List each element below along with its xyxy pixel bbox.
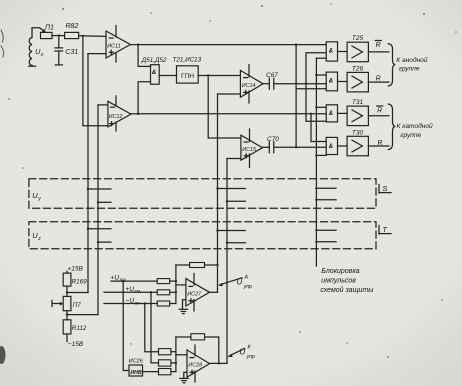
wire gate2 to T26 <box>338 81 348 83</box>
label IC28 <box>188 363 202 369</box>
node feedback-output <box>218 362 220 364</box>
label Uupr-K <box>240 345 256 360</box>
svg-text:ИНВ: ИНВ <box>130 370 141 376</box>
wire IC28 feedback left <box>176 336 191 338</box>
potentiometer wiper arrow <box>40 28 45 32</box>
svg-text:ИС26: ИС26 <box>129 359 144 365</box>
label +15V <box>68 265 84 272</box>
sync tick box1 on left vertical 98 <box>98 201 111 203</box>
potentiometer P7 <box>63 296 71 310</box>
svg-text:ИС15: ИС15 <box>242 147 257 153</box>
terminal T <box>379 226 391 235</box>
svg-text:&: & <box>329 111 333 117</box>
svg-text:C67: C67 <box>266 72 278 79</box>
node bus gate3 <box>315 106 317 108</box>
wire T31 output <box>368 115 389 117</box>
wire IC11 line tap down to C70 line <box>295 45 297 148</box>
label T21,IC13 <box>173 56 202 63</box>
wire inverter feed from +Upt <box>123 281 129 370</box>
label R169 <box>72 278 88 285</box>
svg-text:R82: R82 <box>66 23 79 30</box>
wire D51 gate to GPN <box>159 75 176 77</box>
wire T26 output <box>368 81 389 83</box>
svg-text:R112: R112 <box>72 325 87 332</box>
sync tick box2 on bus C <box>227 242 245 244</box>
wire IC28 plus to ground <box>184 372 187 378</box>
scan blob bottom left <box>0 346 6 364</box>
svg-text:ГПН: ГПН <box>181 73 194 80</box>
wire P1 to node <box>52 35 65 37</box>
label K anodnoy gruppe <box>396 56 428 73</box>
wire +Upt input <box>111 280 157 282</box>
wire gate4 to T30 <box>338 145 348 147</box>
sync tick box1 on bus C <box>227 200 245 202</box>
op-amp U IC27 <box>186 279 210 306</box>
sync tick box1 on bus B <box>218 188 246 190</box>
label R112 <box>72 325 87 332</box>
wire INV output to IC28 r3 <box>143 371 159 373</box>
IC11 plus sign <box>109 50 113 54</box>
svg-text:Т21,ИС13: Т21,ИС13 <box>173 56 202 63</box>
label IC11 <box>107 43 120 49</box>
inverter box INV <box>129 365 143 376</box>
label K katodnoy gruppe <box>397 122 434 139</box>
ground IC28 <box>180 378 188 382</box>
sync tick box2 upper on blocking bus <box>316 229 336 231</box>
node bus gate4 <box>315 154 317 156</box>
svg-text:Д51,Д52: Д51,Д52 <box>141 57 167 64</box>
svg-text:ИС12: ИС12 <box>109 114 123 120</box>
node on C67 line <box>305 83 307 85</box>
sync tick box1 lower on blocking bus <box>316 199 336 201</box>
label -15V <box>68 341 84 348</box>
svg-text:схемой защиты: схемой защиты <box>320 286 374 294</box>
wire r3 out <box>170 303 176 305</box>
arrow Uupr anode <box>219 278 242 286</box>
label IC27 <box>187 291 202 297</box>
capacitor C70 <box>269 142 274 153</box>
label Uy <box>32 191 41 202</box>
wire IC27 output to bus B <box>210 291 218 293</box>
brace cathode group <box>388 104 395 150</box>
IC15 minus sign <box>244 141 248 143</box>
wire IC27 summing node <box>175 265 177 304</box>
node Usm tap <box>150 291 152 293</box>
node IC12 output junction <box>137 113 139 115</box>
node bus gate2 <box>315 74 317 76</box>
sawtooth generator GPN (T21,IC13) <box>177 66 199 83</box>
wire IC14 plus input from feedback bus B <box>218 93 241 95</box>
wire IC14 output to C67 <box>263 83 269 85</box>
wire C67 to AND gate 2 <box>274 83 326 85</box>
resistor IC28 input 1 <box>159 349 171 355</box>
AND gate 1 <box>326 42 337 61</box>
IC28 minus sign <box>190 357 194 359</box>
amplifier T26 <box>347 72 368 92</box>
label C67 <box>266 72 278 79</box>
wire IC15 output to C70 <box>263 146 270 148</box>
label IC14 <box>242 83 256 89</box>
wire C67 line down to AND gate 3 lower input <box>306 84 326 122</box>
wire coil top to potentiometer <box>32 28 40 38</box>
wire -15V stub <box>66 334 68 342</box>
node r2 <box>175 291 177 293</box>
amplifier T31 <box>347 106 368 126</box>
svg-text:К анодной: К анодной <box>396 56 428 64</box>
svg-text:&: & <box>329 144 333 150</box>
terminal S <box>379 185 391 194</box>
IC14 minus sign <box>244 77 248 79</box>
node inverter tap <box>122 280 124 282</box>
wire AND gate 1 second input from C67 line <box>306 53 326 84</box>
svg-text:S: S <box>382 184 387 193</box>
node tick <box>216 187 218 189</box>
label Uz <box>32 231 41 242</box>
P7 wiper arrow <box>52 301 63 307</box>
resistor IC27 input 1 <box>157 279 170 284</box>
wire gate3 to T31 <box>338 112 348 114</box>
node tick <box>315 199 317 201</box>
svg-text:R: R <box>376 76 381 83</box>
label +Upt <box>110 274 126 282</box>
svg-text:упр: упр <box>246 354 255 360</box>
label P7 <box>73 302 82 309</box>
wire tap to AND gate 2 lower input <box>296 88 326 90</box>
svg-text:R169: R169 <box>72 278 88 285</box>
sync tick box1 on left vertical 88 <box>88 188 111 190</box>
wire bus to AND gate 2 <box>316 74 326 76</box>
svg-text:&: & <box>329 79 333 85</box>
op-amp U IC12 <box>108 101 131 127</box>
svg-text:x: x <box>40 52 44 58</box>
node tick <box>315 241 317 243</box>
svg-text:y: y <box>37 196 41 202</box>
node P7-R112 junction <box>66 313 68 315</box>
resistor IC28 input 3 <box>159 369 171 375</box>
IC14 power ticks <box>248 65 250 78</box>
wire vertical from IC11 plus down to R169/P7 junction <box>87 54 89 293</box>
svg-text:П1: П1 <box>45 25 54 32</box>
svg-text:+15В: +15В <box>68 265 84 272</box>
resistor IC28 input 2 <box>159 360 171 366</box>
capacitor C31 <box>55 36 63 65</box>
wire bus to AND gate 3 <box>316 106 326 108</box>
svg-text:ИС11: ИС11 <box>107 43 120 49</box>
resistor R112 <box>63 320 71 334</box>
dashed box Uz <box>29 222 376 249</box>
IC11 minus sign <box>109 37 113 39</box>
svg-text:группе: группе <box>399 66 420 73</box>
wire T25 output <box>368 51 389 53</box>
sync tick box2 on bus B <box>218 230 246 232</box>
node tap bottom <box>295 146 297 148</box>
IC11 power ticks <box>115 26 117 38</box>
wire P7 to R112 <box>66 311 68 320</box>
wire IC28 output to bus C <box>210 362 228 364</box>
wire IC28 summing node <box>175 337 177 372</box>
svg-text:ИС27: ИС27 <box>187 291 202 297</box>
sync tick box2 lower on blocking bus <box>316 241 336 243</box>
node tick <box>216 229 218 231</box>
wire R82 to IC11 minus input <box>79 35 106 38</box>
wire +15V stub <box>66 271 68 273</box>
wire -Uvp input <box>104 303 157 305</box>
node GPN output junction <box>207 74 209 76</box>
label -Uvp <box>125 297 140 305</box>
IC28 power ticks <box>194 345 196 356</box>
wire IC12 output up to D51 gate bottom input <box>138 82 150 114</box>
wire gate1 to T25 <box>338 51 348 53</box>
wire IC27 feedback right to bus B <box>205 264 218 266</box>
wire IC27 feedback left <box>176 264 190 266</box>
svg-text:Т30: Т30 <box>352 129 364 136</box>
wire branch down to IC12 plus input <box>83 36 108 126</box>
amplifier T30 <box>347 136 368 156</box>
label Uupr-A <box>237 275 253 290</box>
wire IC28 minus stub <box>176 354 187 356</box>
svg-text:&: & <box>329 49 333 55</box>
resistor IC28 feedback <box>191 334 205 340</box>
sync tick box1 upper on blocking bus <box>316 187 336 189</box>
node r1 <box>175 280 177 282</box>
wire IC11 plus input from lower bus <box>88 53 106 55</box>
amplifier T25 <box>347 42 368 62</box>
wire r1 out <box>170 280 176 282</box>
inductor Ux (input winding) <box>29 38 36 67</box>
resistor IC27 input 3 <box>157 301 170 306</box>
svg-text:R: R <box>377 107 382 114</box>
scan edge tears left <box>1 30 4 57</box>
wire T30 output <box>368 145 389 147</box>
label T26 <box>352 65 364 72</box>
node junction to IC12 branch <box>82 35 84 37</box>
wire bus to AND gate 4 <box>316 154 326 156</box>
wire IC12 line down to AND gate 4 second input <box>311 114 326 142</box>
svg-text:R: R <box>377 140 382 147</box>
AND gate 2 <box>326 72 337 91</box>
node tick <box>87 188 89 190</box>
wire vertical from IC12 minus down to P7 lower junction <box>97 105 99 315</box>
label IC12 <box>109 114 123 120</box>
svg-text:импульсов: импульсов <box>321 277 356 284</box>
svg-text:группе: группе <box>400 132 421 139</box>
IC15 plus sign <box>244 154 248 158</box>
svg-text:см: см <box>135 289 141 294</box>
svg-text:Т31: Т31 <box>352 99 364 106</box>
wire C70 to AND gate 4 <box>274 146 326 148</box>
potentiometer P1 <box>41 32 53 38</box>
node R169-P7 junction <box>66 291 68 293</box>
svg-text:+U: +U <box>110 274 119 281</box>
wire IC27 minus stub <box>176 284 186 286</box>
node tick <box>315 187 317 189</box>
wire junction to IC11 plus bus <box>67 292 88 294</box>
AND gate 3 <box>326 105 337 122</box>
sync tick box2 on left vertical 88 <box>88 228 111 230</box>
label +Usm <box>125 286 141 294</box>
IC27 minus sign <box>189 285 193 287</box>
svg-text:упр: упр <box>243 284 252 290</box>
wire r1 out <box>171 351 176 353</box>
svg-text:U: U <box>240 347 246 356</box>
svg-text:C31: C31 <box>65 49 78 56</box>
node tick <box>97 241 99 243</box>
IC15 power ticks <box>249 129 251 142</box>
IC27 plus sign <box>189 299 193 303</box>
node feedback-B <box>216 264 218 266</box>
IC28 plus sign <box>190 370 194 374</box>
label C70 <box>267 136 279 143</box>
svg-text:ИС14: ИС14 <box>242 83 256 89</box>
dashed box Uy <box>29 179 376 208</box>
label T31 <box>352 99 364 106</box>
wire IC12 output line to AND gate 3 <box>131 113 326 115</box>
node IC11 output junction <box>137 43 139 45</box>
resistor IC27 feedback <box>190 263 205 268</box>
wire IC11 output down to D51 gate top input <box>138 45 150 67</box>
wire -Uvp down to IC28 r1 <box>145 304 159 352</box>
wire IC28 feedback right and down to output <box>205 337 219 363</box>
wire feedback bus C down to IC28 output <box>226 159 228 364</box>
wire feedback bus B down to IC27 output <box>217 94 219 292</box>
label Ux <box>35 47 44 58</box>
node tick <box>97 201 99 203</box>
wire IC27 plus to ground <box>183 300 186 309</box>
wire GPN output to IC14 minus input <box>198 75 240 77</box>
IC27 power ticks <box>193 274 195 286</box>
wire IC12 minus loop <box>98 104 108 106</box>
label Rbar output 1 <box>376 42 381 49</box>
op-amp U IC28 <box>187 350 210 377</box>
label IC15 <box>242 147 257 153</box>
label P1 <box>45 25 54 32</box>
wire GPN output down and right to IC15 minus input <box>208 76 241 139</box>
label T30 <box>352 129 364 136</box>
svg-text:А: А <box>244 275 249 281</box>
svg-text:ИС28: ИС28 <box>188 363 202 369</box>
svg-text:R: R <box>376 42 381 49</box>
svg-text:Блокировка: Блокировка <box>321 268 359 275</box>
label D51,D52 <box>141 57 167 64</box>
node tick <box>87 228 89 230</box>
label R output 2 <box>376 76 381 83</box>
wire r2 out <box>171 362 176 364</box>
svg-text:z: z <box>37 236 41 242</box>
IC12 plus sign <box>110 122 114 126</box>
svg-text:Т25: Т25 <box>352 35 364 42</box>
node tick <box>226 200 228 202</box>
label C31 <box>65 49 78 56</box>
resistor R169 <box>63 273 71 286</box>
wire r2 out <box>170 291 176 293</box>
svg-text:U: U <box>237 277 243 286</box>
node junction C31 tap <box>58 34 60 36</box>
op-amp U IC11 <box>106 31 130 58</box>
wire blocking bus vertical <box>315 58 317 266</box>
op-amp U IC14 <box>240 70 263 97</box>
sync tick box2 on left vertical 98 <box>98 241 111 243</box>
IC14 plus sign <box>244 90 248 94</box>
ground IC27 <box>179 309 187 313</box>
resistor R82 <box>65 32 79 38</box>
node on IC12 line <box>310 113 312 115</box>
label T <box>382 225 388 234</box>
AND gate D51,D52 <box>151 65 160 85</box>
brace anode group <box>388 44 395 86</box>
node Uvp tap <box>144 302 146 304</box>
wire +Usm input <box>104 291 157 293</box>
node tick <box>315 229 317 231</box>
label Rbar output 3 <box>377 107 382 114</box>
wire bus to AND gate 1 <box>316 57 326 59</box>
label R output 4 <box>377 140 382 147</box>
node r2 <box>175 362 177 364</box>
node tap top <box>295 43 297 45</box>
wire junction to IC12 minus bus <box>67 314 98 316</box>
wire IC11 output line to AND gate 1 <box>130 44 326 46</box>
label R82 <box>66 23 79 30</box>
op-amp U IC15 <box>241 135 263 160</box>
wire R169 to P7 <box>66 286 68 296</box>
label IC26 <box>129 359 144 365</box>
node tick <box>226 242 228 244</box>
svg-text:&: & <box>152 69 157 76</box>
svg-text:C70: C70 <box>267 136 279 143</box>
svg-text:вп: вп <box>135 300 140 305</box>
label blocking text <box>320 268 374 294</box>
svg-text:−15В: −15В <box>68 341 84 348</box>
capacitor C67 <box>269 78 274 89</box>
AND gate 4 <box>326 137 337 154</box>
IC12 minus sign <box>111 106 115 108</box>
arrow Uupr cathode <box>228 349 244 357</box>
resistor IC27 input 2 <box>157 290 170 295</box>
IC12 power ticks <box>115 96 117 106</box>
wire IC15 plus input from feedback bus C <box>227 158 241 160</box>
label T25 <box>352 35 364 42</box>
wire +Usm down to IC28 r2 <box>151 292 159 363</box>
wire r3 out <box>171 371 176 373</box>
svg-text:П7: П7 <box>73 302 82 309</box>
label S <box>382 184 387 193</box>
svg-text:Т26: Т26 <box>352 65 364 72</box>
svg-text:К катодной: К катодной <box>397 122 434 130</box>
